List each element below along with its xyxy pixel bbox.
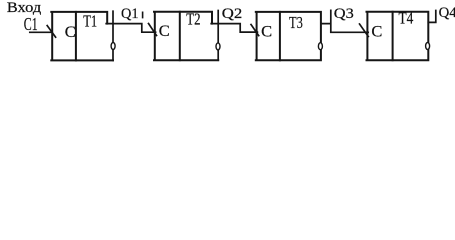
output lead Q2 vertical [217,11,219,61]
wire Q2 to T3 clock [211,24,257,32]
svg-text:C1: C1 [24,14,38,34]
divider U3 [279,12,281,60]
divider U4 [392,12,394,60]
flip-flop U1 box outline [51,12,113,61]
output lead Q1 vertical [112,11,114,60]
svg-text:C: C [261,24,272,41]
wire Q3 to T4 clock [321,10,368,32]
wire Q1 to T2 clock [106,24,155,33]
flip-flop U3 box outline [256,12,321,60]
svg-text:T4: T4 [399,9,414,28]
inverted output circle U2 [216,43,220,50]
inverted output circle U3 [318,43,322,50]
divider U1 [75,12,77,61]
svg-text:C: C [371,24,382,41]
dynamic input slash T4 [360,24,369,37]
artifact tick [142,12,144,17]
wire input to T1 clock [30,31,52,33]
svg-text:C: C [65,24,76,41]
inverted output circle U1 [111,43,115,50]
svg-text:T3: T3 [289,13,303,32]
flip-flop U2 box outline [154,12,218,60]
flip-flop U4 box outline [367,12,429,60]
svg-text:Q3: Q3 [334,6,354,22]
svg-text:T1: T1 [83,11,97,30]
dynamic input slash T3 [251,25,259,36]
divider U2 [179,12,181,60]
svg-text:Q4: Q4 [439,5,455,21]
inverted output circle U4 [426,43,430,50]
wire Q4 output [428,11,436,23]
dynamic input slash T2 [149,24,157,36]
svg-text:Q2: Q2 [222,6,243,22]
dynamic input slash T1 [47,26,55,38]
svg-text:C: C [159,23,170,40]
svg-text:T2: T2 [186,10,200,29]
svg-text:Q1: Q1 [121,6,139,22]
